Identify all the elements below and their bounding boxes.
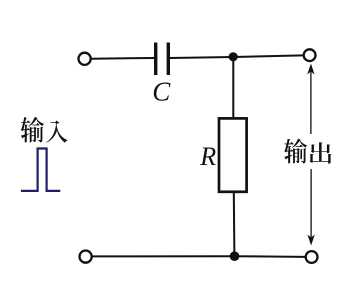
resistor R	[219, 118, 247, 191]
wire: node B to bottom-right terminal	[235, 255, 306, 258]
node B (bottom junction)	[230, 251, 240, 261]
input terminal bottom-left	[80, 251, 92, 263]
node A (top junction)	[229, 52, 238, 61]
wire: capacitor to node A	[170, 57, 233, 58]
label 输 of 输出 (output)	[284, 138, 307, 163]
wire: bottom-left terminal to node B	[92, 255, 235, 257]
svg-text:R: R	[199, 142, 216, 171]
output terminal bottom-right	[306, 251, 318, 263]
svg-text:C: C	[152, 77, 171, 107]
output arrowhead up	[307, 64, 314, 75]
capacitor C	[156, 43, 169, 76]
label 入 of 输入 (input)	[46, 121, 67, 143]
input pulse waveform	[21, 149, 60, 191]
input terminal top-left	[79, 53, 91, 65]
output arrowhead down	[307, 235, 314, 246]
wire: top-left terminal to capacitor	[91, 57, 154, 60]
wire: node A to top-right terminal	[233, 55, 303, 57]
wire: resistor to node B	[233, 192, 236, 256]
output terminal top-right	[304, 49, 316, 61]
label 输 of 输入 (input)	[21, 117, 44, 143]
output arrow line upper segment	[310, 68, 312, 134]
output arrow line lower segment	[310, 169, 312, 240]
label 出 of 输出 (output)	[310, 142, 332, 163]
wire: node A down to resistor	[232, 57, 234, 119]
